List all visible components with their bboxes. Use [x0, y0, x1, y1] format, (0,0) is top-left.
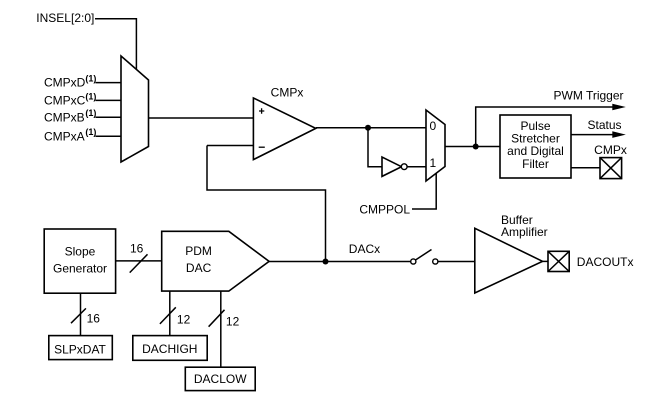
svg-text:16: 16	[87, 311, 101, 325]
mux MUX1 input selector	[121, 56, 149, 162]
wire to CMPx pad	[571, 167, 600, 169]
wire MUX1 output to comparator +	[148, 117, 253, 119]
wire CMPxA input	[95, 135, 121, 137]
wire CMPPOL select	[412, 174, 436, 210]
bus slash 16	[71, 308, 86, 323]
svg-text:16: 16	[130, 242, 144, 256]
svg-text:(1): (1)	[85, 91, 96, 101]
svg-text:DACHIGH: DACHIGH	[142, 342, 197, 356]
svg-text:Generator: Generator	[53, 261, 107, 275]
bus slash 16	[130, 254, 148, 272]
svg-text:CMPxA: CMPxA	[44, 129, 85, 143]
svg-text:INSEL[2:0]: INSEL[2:0]	[36, 11, 94, 25]
svg-text:CMPx: CMPx	[271, 86, 304, 100]
box DACLOW	[185, 367, 255, 390]
svg-text:Status: Status	[588, 118, 622, 132]
bus PDM DAC to DACLOW	[220, 291, 222, 367]
svg-text:CMPxB: CMPxB	[44, 110, 85, 124]
junction MUX2 output	[473, 144, 479, 150]
bus Slope Generator to SLPxDAT	[80, 293, 82, 335]
svg-text:SLPxDAT: SLPxDAT	[54, 342, 106, 356]
op-amp comparator CMPx	[253, 98, 315, 160]
wire comparator output to MUX2 input 0	[316, 127, 426, 129]
bus slash 12	[160, 307, 176, 324]
comparator plus pin	[259, 108, 264, 113]
svg-text:CMPxC: CMPxC	[44, 94, 86, 108]
wire CMPxC input	[95, 99, 121, 101]
wire DACx from PDM DAC to switch	[269, 261, 411, 263]
svg-text:Amplifier: Amplifier	[501, 225, 548, 239]
mux MUX2 polarity selector	[426, 110, 445, 181]
box SLPxDAT	[49, 336, 113, 360]
svg-text:PWM Trigger: PWM Trigger	[554, 88, 624, 102]
svg-text:DACOUTx: DACOUTx	[577, 255, 634, 269]
wire comparator inverting input	[207, 145, 253, 147]
box Slope Generator	[44, 229, 115, 293]
svg-text:1: 1	[429, 156, 436, 170]
junction comparator output	[365, 125, 371, 131]
svg-text:12: 12	[226, 315, 240, 329]
svg-text:DAC: DAC	[186, 261, 212, 275]
wire branch to inverter	[368, 128, 382, 167]
svg-text:CMPx: CMPx	[594, 143, 627, 157]
svg-text:CMPxD: CMPxD	[44, 76, 86, 90]
wire MUX2 output to filter	[445, 146, 500, 148]
inverter U2	[382, 157, 402, 176]
switch S1	[411, 259, 416, 264]
arrow PWM Trigger	[612, 104, 626, 111]
comparator minus pin	[259, 146, 265, 148]
svg-text:(1): (1)	[85, 127, 96, 137]
box PDM DAC	[162, 231, 269, 291]
svg-text:Filter: Filter	[522, 157, 549, 171]
pad DACOUTx	[548, 251, 569, 271]
wire inverter output to MUX2 input 1	[407, 166, 426, 168]
wire feedback from DACx to inverting input	[207, 146, 326, 262]
box DACHIGH	[133, 336, 207, 361]
svg-text:0: 0	[429, 119, 436, 133]
pad CMPx	[600, 158, 622, 179]
junction DACx feedback	[323, 259, 329, 265]
wire switch to buffer	[438, 261, 475, 263]
wire Status output	[571, 134, 615, 136]
bus PDM DAC to DACHIGH	[169, 291, 171, 336]
wire CMPxD input	[95, 82, 121, 84]
wire buffer to DACOUTx pad	[543, 260, 549, 262]
svg-text:(1): (1)	[85, 74, 96, 84]
svg-text:DACx: DACx	[349, 242, 380, 256]
box Pulse Stretcher and Digital Filter	[500, 115, 571, 178]
op-amp buffer amplifier	[475, 228, 543, 293]
wire PWM trigger	[476, 107, 615, 147]
svg-text:DACLOW: DACLOW	[194, 372, 247, 386]
svg-text:CMPPOL: CMPPOL	[359, 203, 410, 217]
svg-text:Slope: Slope	[65, 245, 96, 259]
wire CMPxB input	[95, 116, 121, 118]
svg-text:PDM: PDM	[185, 244, 212, 258]
wire INSEL select to MUX1	[95, 19, 136, 70]
bus slash 12	[209, 310, 225, 327]
svg-text:12: 12	[177, 312, 191, 326]
arrow Status	[612, 131, 626, 138]
svg-text:(1): (1)	[85, 108, 96, 118]
bus Slope Generator to PDM DAC	[116, 260, 162, 262]
